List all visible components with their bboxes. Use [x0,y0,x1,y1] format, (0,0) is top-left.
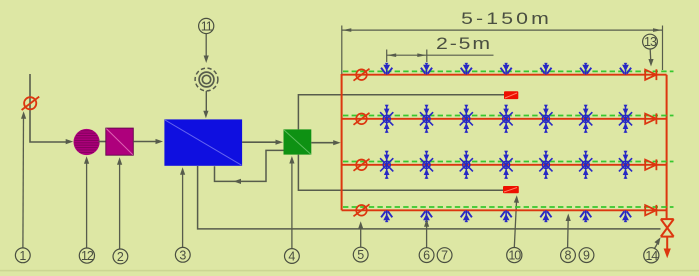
label circle 6 [419,248,434,263]
emitter row 3 #7 [619,151,632,179]
pressure sensor lower (red bar) [503,186,519,193]
lateral row 3 red pipe [342,164,667,166]
emitter row 1 #6 [580,63,591,75]
emitter row 4 #1 [381,210,392,222]
dimension 5-150m [342,26,663,75]
wire: valve unit to manifold [311,142,334,144]
emitter row 4 #6 [580,210,591,222]
emitter row 3 #5 [539,151,552,179]
svg-text:3: 3 [179,248,186,262]
lateral row 4 red pipe [342,209,667,211]
label circle 4 [285,249,300,264]
wire: suction pipe vertical [30,74,66,142]
emitter row 2 #2 [420,105,433,133]
leader 3 [182,171,184,247]
emitter row 3 #2 [420,151,433,179]
main manifold (red vertical) [341,74,343,210]
svg-text:5: 5 [357,248,364,262]
dimension 2-5m [387,50,494,63]
label circle 11 [199,18,214,33]
lateral valve row 3 (red circle slash) [354,159,370,171]
label circle 8 [561,248,576,263]
svg-text:7: 7 [441,249,448,263]
lateral row 2 red pipe [342,118,667,120]
svg-text:14: 14 [645,249,658,263]
foot valve symbol (red circle with slash) [22,97,40,110]
fertilizer tank (concentric circles) [195,68,218,91]
emitter row 1 #7 [620,63,631,75]
emitter row 1 #3 [461,63,472,75]
emitter row 2 #3 [460,105,473,133]
drain arrow (red) [666,237,668,250]
leader 8/9 [567,218,570,248]
leader 5 [360,226,362,248]
label circle 5 [353,247,368,262]
emitter row 4 #5 [540,210,551,222]
svg-text:9: 9 [583,249,590,263]
svg-text:5-150m: 5-150m [461,10,552,29]
label circle 9 [579,248,594,263]
label circle 14 [644,248,659,263]
leader 1 (water source) [22,116,25,248]
label circle 3 [175,247,190,262]
flush end symbol row 1 [645,69,656,80]
control bus wire to main valve [198,166,661,229]
leader 13 [649,49,652,62]
main flush valve (red bowtie) [661,219,674,237]
emitter row 1 #5 [540,63,551,75]
emitter row 4 #7 [620,210,631,222]
svg-text:10: 10 [508,249,521,263]
flush end symbol row 4 [645,205,656,216]
lateral valve row 1 (red circle slash) [354,69,370,81]
emitter row 3 #4 [500,151,513,179]
leader 4 [291,160,293,249]
flush end symbol row 3 [645,159,656,170]
svg-text:8: 8 [565,249,572,263]
emitter row 3 #3 [460,151,473,179]
label circle 1 [15,248,30,263]
lateral valve row 4 (red circle slash) [354,204,370,216]
leader 12 [86,160,88,248]
svg-text:4: 4 [288,250,295,264]
lateral valve row 2 (red circle slash) [354,113,370,125]
svg-text:2-5m: 2-5m [436,35,492,54]
label circle 7 [437,248,452,263]
emitter row 1 #1 [381,63,392,75]
emitter row 2 #1 [380,105,393,133]
svg-text:11: 11 [201,20,213,34]
svg-text:1: 1 [19,249,26,263]
submain right collector (red vertical) [666,75,668,220]
leader 11 arrow down [205,34,207,59]
wire: injector to filter [98,141,105,143]
emitter row 4 #3 [461,210,472,222]
emitter row 1 #2 [421,63,432,75]
pressure sensor upper (red bar) [504,91,518,99]
leader 6/7 [426,224,428,248]
label circle 2 [113,249,128,264]
emitter row 2 #5 [539,105,552,133]
svg-text:2: 2 [117,250,124,264]
leader 2 [119,161,121,249]
sensor wire lower [298,155,503,191]
faint page rule [0,270,699,272]
lateral row 1 green dripline (dashed) [343,70,674,72]
label circle 10 [507,248,522,263]
wire: tank to control unit [205,91,207,113]
leader 14 [654,242,658,250]
emitter row 3 #6 [579,151,592,179]
label circle 12 [79,248,94,263]
wire: control unit to valve unit [242,141,276,143]
feedback wire: green valve unit back to control unit [215,150,284,181]
emitter row 2 #6 [579,105,592,133]
arrow into fertilizer tank (component 12) [66,139,74,144]
fertilizer injector pump (magenta circle) C12 [74,129,100,155]
lateral row 1 red pipe [342,74,667,76]
svg-text:13: 13 [644,35,657,49]
emitter row 1 #4 [501,63,512,75]
emitter row 4 #2 [421,210,432,222]
flush end symbol row 2 [645,113,656,124]
label circle 13 [643,34,658,49]
svg-text:12: 12 [81,249,94,263]
valve unit (green square) C4 [284,129,312,154]
lateral row 2 green dripline (dashed) [343,115,674,117]
emitter row 4 #4 [501,210,512,222]
emitter row 2 #7 [619,105,632,133]
lateral row 4 green dripline (dashed) [343,206,674,208]
emitter row 3 #1 [380,151,393,179]
leader 10 [514,200,516,248]
lateral row 3 green dripline (dashed) [343,161,674,163]
control unit (blue rectangle) C3 [164,119,242,165]
sensor wire upper [298,95,504,130]
wire: filter to control unit with arrow [133,141,156,143]
svg-text:6: 6 [423,249,430,263]
emitter row 2 #4 [500,105,513,133]
filter (magenta square) C2 [106,128,134,155]
